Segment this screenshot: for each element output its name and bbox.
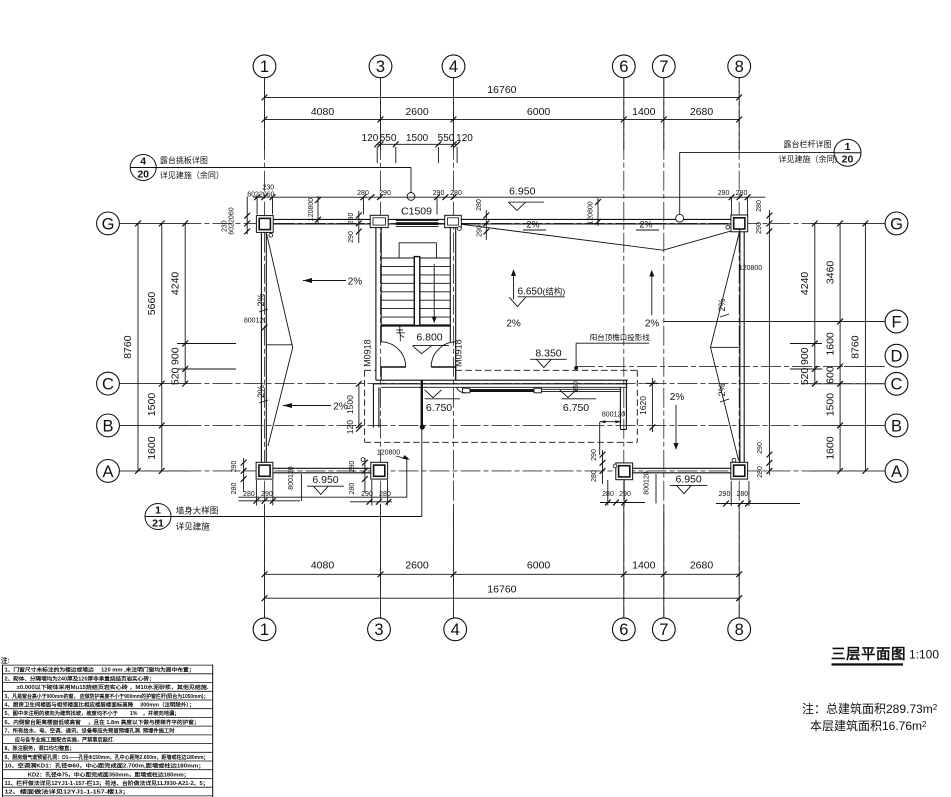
svg-text:2%: 2% [645,318,660,329]
svg-text:±0.000以下砌体采用Mu15烧结页岩实心砖 ，M10水泥: ±0.000以下砌体采用Mu15烧结页岩实心砖 ，M10水泥砂浆，其他见结施. [5,683,210,691]
svg-text:三层平面图: 三层平面图 [831,646,906,663]
svg-text:20: 20 [137,168,149,180]
svg-text:1500: 1500 [406,133,429,144]
svg-text:120800: 120800 [587,201,594,224]
grid line row A [120,470,886,472]
svg-text:800120: 800120 [244,318,267,325]
small circle marker 2 [726,225,730,229]
svg-text:900: 900 [799,347,811,365]
stair west wall [375,228,377,381]
svg-text:290: 290 [477,225,484,237]
svg-text:6.950: 6.950 [509,186,535,198]
svg-text:下: 下 [396,332,406,343]
svg-text:6000: 6000 [527,106,551,118]
svg-text:5、图中未注明的坡向为建筑找坡，坡度均不小于 1% ，并: 5、图中未注明的坡向为建筑找坡，坡度均不小于 1% ，并坡向地漏； [5,709,180,717]
svg-text:800120: 800120 [644,471,651,494]
svg-text:280: 280 [736,491,748,498]
svg-text:1:100: 1:100 [909,648,939,662]
grid extension left [120,383,191,385]
svg-text:1500: 1500 [825,393,837,417]
svg-text:290: 290 [348,231,355,243]
svg-text:B: B [891,417,902,435]
grid extension top [264,78,266,150]
svg-text:注:: 注: [1,656,10,665]
grid extension bottom [264,505,266,618]
svg-text:1600: 1600 [825,332,837,356]
svg-text:2%: 2% [256,293,266,306]
column A-1 [256,462,273,479]
svg-text:230: 230 [221,220,228,232]
grid bubble 6 top [612,55,635,78]
svg-text:16760: 16760 [487,583,516,595]
svg-text:4: 4 [140,156,146,168]
svg-text:4080: 4080 [311,559,335,571]
svg-text:2%: 2% [639,220,652,230]
svg-text:290: 290 [619,491,631,498]
grid bubble C left [97,372,120,395]
svg-text:1600: 1600 [825,436,837,460]
svg-text:290: 290 [719,491,731,498]
svg-text:290: 290 [591,449,598,461]
grid extension bottom [738,505,740,618]
svg-text:M0918: M0918 [362,339,372,367]
left dim 4240/900/520 [184,223,186,383]
svg-text:2600: 2600 [405,106,429,118]
grid extension top [453,78,455,150]
svg-text:KD2：孔径Φ75，中心距完成面350mm，距墙或柱边180: KD2：孔径Φ75，中心距完成面350mm，距墙或柱边180mm； [5,770,190,778]
svg-text:F: F [891,313,901,331]
small circle marker 5 [732,458,736,462]
svg-text:290: 290 [757,442,764,454]
wall row A right segment [633,467,732,469]
grid bubble 7 top [652,55,675,78]
svg-text:本层建筑面积16.76m2: 本层建筑面积16.76m2 [810,718,927,733]
grid bubble G right [885,212,908,235]
stair upper landing [399,243,436,258]
svg-text:6: 6 [619,621,628,639]
svg-text:4240: 4240 [170,272,182,296]
grid extension bottom [623,505,625,618]
svg-text:6.950: 6.950 [675,473,701,485]
wall pier left of window C1509 [370,215,388,227]
roof valley right [711,230,741,461]
svg-text:2、砌体、分隔墙均为240厚及120厚非承重烧结页岩实心砖；: 2、砌体、分隔墙均为240厚及120厚非承重烧结页岩实心砖； [5,674,155,682]
svg-text:注：总建筑面积289.73m2: 注：总建筑面积289.73m2 [802,701,938,716]
grid line column 7 [663,78,665,618]
grid bubble D right [885,344,908,367]
svg-text:3: 3 [374,621,383,639]
stair treads [381,257,450,259]
svg-text:280: 280 [348,213,355,225]
svg-text:280: 280 [757,466,764,478]
svg-text:520: 520 [799,367,811,385]
svg-text:阳台顶檐口投影线: 阳台顶檐口投影线 [590,332,650,342]
railing end arc [457,387,467,393]
grid extension left [120,222,191,224]
svg-text:G: G [890,215,903,233]
svg-text:1500: 1500 [146,393,158,417]
grid line column 6 [623,78,625,618]
svg-text:550: 550 [380,133,397,144]
callout 4/20 露台挑板详图 [130,155,156,181]
grid extension right [810,424,885,426]
grid extension bottom [380,505,382,618]
svg-text:4: 4 [449,58,458,76]
svg-text:2680: 2680 [690,106,714,118]
wall right exterior [739,232,741,463]
leader 阳台顶檐口投影线 [576,342,649,344]
svg-text:露台挑板详图: 露台挑板详图 [160,155,208,165]
stair west wall lower [380,367,382,380]
door M0918 left [381,342,406,367]
svg-text:1: 1 [155,505,161,517]
svg-text:8: 8 [735,58,744,76]
svg-text:2%: 2% [348,277,363,288]
slope arrow 2% col6 up [651,275,653,316]
svg-text:280: 280 [349,483,356,495]
svg-text:20: 20 [842,154,854,166]
callout 1/20 露台栏杆详图 [834,139,861,166]
svg-text:8.350: 8.350 [535,347,561,359]
grid line column 3 [380,78,382,618]
grid bubble 1 bottom [253,618,276,641]
svg-text:2%: 2% [506,318,521,329]
svg-text:6.750: 6.750 [563,402,589,414]
balcony east wall [619,387,621,429]
svg-text:2%: 2% [670,392,685,403]
grid bubble 7 bottom [652,618,675,641]
svg-text:1600: 1600 [146,436,158,460]
svg-text:2%: 2% [526,220,539,230]
svg-text:280: 280 [450,190,462,197]
grid line row D [575,365,885,367]
grid bubble 6 bottom [612,618,635,641]
svg-text:M0918: M0918 [454,339,464,367]
grid line row F [664,321,885,323]
grid bubble 8 top [728,55,751,78]
wall left exterior [260,232,262,463]
grid extension bottom [663,505,665,618]
svg-text:290: 290 [349,461,356,473]
grid extension right [810,383,885,385]
grid line column 4 [453,78,455,618]
svg-text:G: G [102,215,115,233]
svg-text:C1509: C1509 [401,205,432,217]
right dim 3460/1600/600/1500/1600 [839,223,841,471]
svg-text:8760: 8760 [850,335,862,359]
svg-text:4: 4 [451,621,460,639]
grid bubble C right [885,372,908,395]
svg-text:800120: 800120 [602,412,625,419]
svg-text:3: 3 [376,58,385,76]
wall row A left segment [273,467,372,469]
svg-text:5660: 5660 [146,292,158,316]
svg-text:1: 1 [260,58,269,76]
svg-text:1: 1 [260,621,269,639]
svg-text:详见建施（余同）: 详见建施（余同） [779,154,843,164]
svg-text:7: 7 [659,58,668,76]
svg-text:9、厨房烟气道预留孔洞：D1——孔径Φ150mm，孔中心距地: 9、厨房烟气道预留孔洞：D1——孔径Φ150mm，孔中心距地2.650m，距墙或… [5,753,209,761]
small circle marker 1 [269,233,273,237]
svg-text:6022060: 6022060 [247,191,274,198]
svg-text:120800: 120800 [739,265,762,272]
svg-text:550: 550 [438,133,455,144]
slope arrow 2% upper left interior [303,280,346,282]
stair east wall [449,228,451,342]
wall band row C [376,379,628,381]
svg-text:D: D [891,348,903,366]
stair down arrow [433,264,435,319]
svg-text:10、空调洞KD1：孔径Φ60，中心距完成面2.700m,距: 10、空调洞KD1：孔径Φ60，中心距完成面2.700m,距墙或柱边180mm； [5,762,205,770]
column A-3 [371,462,388,479]
svg-text:11、栏杆做法详见12YJ1-1-157-栏13；花池、台阶: 11、栏杆做法详见12YJ1-1-157-栏13；花池、台阶做法详见11J930… [5,779,209,787]
svg-text:6.650(结构): 6.650(结构) [518,287,566,298]
svg-text:280: 280 [756,200,763,212]
stair stringer [414,257,420,326]
column G-8 [731,215,748,232]
slope arrow 2% right interior down [675,405,677,445]
svg-text:120800: 120800 [377,449,400,456]
svg-text:800120: 800120 [288,466,295,489]
dim 1620 [651,378,653,432]
svg-text:8760: 8760 [122,335,134,359]
grid extension bottom [453,505,455,618]
small circle marker 6 [613,464,617,468]
svg-text:2%: 2% [256,385,266,398]
grid extension top [663,78,665,150]
svg-text:280: 280 [357,190,369,197]
svg-text:应与各专业施工图配合实施，严禁事后敲打.: 应与各专业施工图配合实施，严禁事后敲打. [5,735,116,743]
grid bubble 4 top [442,55,465,78]
svg-text:1: 1 [845,141,851,153]
grid extension top [738,78,740,150]
leader wall detail callout [421,381,423,429]
grid extension top [623,78,625,150]
svg-text:1620: 1620 [638,396,648,415]
svg-text:120: 120 [456,133,473,144]
svg-text:6: 6 [619,58,628,76]
bottom dim row 4080/2600/6000/1400/2680 [265,573,740,575]
svg-text:6.800: 6.800 [416,331,442,343]
svg-text:6、内侧窗台距离楼面低或高窗 ，且在 1.8m 高度以下做: 6、内侧窗台距离楼面低或高窗 ，且在 1.8m 高度以下做与楼梯齐平的护窗； [5,718,200,726]
svg-text:6022060: 6022060 [229,207,236,234]
svg-text:B: B [102,417,113,435]
grid bubble F right [885,310,908,333]
grid extension right [810,321,885,323]
right dim 8760 [864,223,866,471]
grid line column 8 [738,78,740,618]
svg-text:290: 290 [231,461,238,473]
roof valley left [267,234,293,447]
svg-text:1400: 1400 [632,559,656,571]
grid bubble 3 top [369,55,392,78]
grid bubble 8 bottom [728,618,751,641]
grid extension left [120,470,191,472]
grid extension top [380,78,382,150]
svg-text:3、凡是窗台高小于900mm的窗， 应做防护高度不小于90: 3、凡是窗台高小于900mm的窗， 应做防护高度不小于900mm的护窗栏杆(阳台… [5,692,209,700]
svg-text:120: 120 [362,133,379,144]
extension lines tier3 [376,147,378,163]
svg-text:2%: 2% [717,298,727,311]
svg-text:21: 21 [152,517,164,529]
svg-text:详见建施（余同）: 详见建施（余同） [160,170,224,180]
svg-text:290: 290 [756,222,763,234]
slope arrow 2% lower left interior [283,405,331,407]
grid line row G [120,222,886,224]
svg-text:8、胀注服务，洞口均匀整直；: 8、胀注服务，洞口均匀整直； [5,744,75,752]
svg-text:16760: 16760 [487,84,516,96]
balcony railing bar [463,388,470,393]
svg-text:2%: 2% [333,402,348,413]
column G-1 [256,216,273,233]
top dim 16760 [265,96,740,98]
grid bubble 4 bottom [444,618,467,641]
svg-text:A: A [102,463,113,481]
grid line row B [120,424,886,426]
column A-6 [616,463,633,480]
common top small-dim line [253,196,765,198]
stair tick below 下 [399,327,401,335]
svg-text:2680: 2680 [690,559,714,571]
svg-text:A: A [891,463,902,481]
svg-text:1400: 1400 [632,106,656,118]
svg-text:280: 280 [231,483,238,495]
balcony west wall [372,384,374,428]
wall row G [273,218,731,220]
left dim 8760 [137,223,139,471]
svg-text:280: 280 [476,199,483,211]
svg-text:290: 290 [718,190,730,197]
svg-text:2600: 2600 [405,559,429,571]
svg-text:600: 600 [825,366,837,384]
svg-text:520: 520 [170,367,182,385]
grid extension right D [844,365,885,367]
door M0918 right [431,342,456,367]
roof valley top [461,224,731,250]
svg-text:12、楼面做法详见12YJ1-1-157-楼13；: 12、楼面做法详见12YJ1-1-157-楼13； [5,788,130,796]
grid bubble A left [97,460,120,483]
grid line column 1 [264,78,266,618]
grid extension right [810,470,885,472]
right dim 4240/900/520 [814,223,816,383]
svg-text:露台栏杆详图: 露台栏杆详图 [784,139,832,149]
grid bubble 3 bottom [368,618,391,641]
small circle marker 4 [361,458,365,462]
svg-text:7、所有给水、电、空调、通讯、设备等应先预留预埋孔洞. 预埋: 7、所有给水、电、空调、通讯、设备等应先预留预埋孔洞. 预埋件施工时 [5,727,176,735]
grid line row C [120,383,886,385]
svg-text:3460: 3460 [825,261,837,285]
svg-text:2%: 2% [717,383,727,396]
grid bubble B left [97,414,120,437]
svg-text:4240: 4240 [799,272,811,296]
small circle marker 3 [457,227,461,231]
svg-text:150: 150 [573,381,580,393]
top dim row 4080/2600/6000/1400/2680 [265,118,740,120]
stair east wall lower [455,367,457,380]
left dim 5660/1500/1600 [161,223,163,471]
svg-text:120: 120 [345,420,355,434]
svg-text:900: 900 [170,347,182,365]
grid bubble B right [885,414,908,437]
svg-text:4、厨房卫生间楼面与相邻楼面比相应楼层楼面标高降 300m: 4、厨房卫生间楼面与相邻楼面比相应楼层楼面标高降 300mm（注明除外）； [5,701,195,709]
svg-text:墙身大样图: 墙身大样图 [176,506,219,516]
window C1509 [396,219,439,221]
svg-text:6.950: 6.950 [312,474,338,486]
dashed projection rect 阳台顶檐口 [365,369,376,371]
svg-text:4080: 4080 [311,106,335,118]
svg-text:7: 7 [659,621,668,639]
grid extension right [810,222,885,224]
svg-text:280: 280 [591,470,598,482]
wall pier right of window C1509 [445,215,462,227]
grid bubble G left [97,212,120,235]
grid extension left [120,424,191,426]
grid bubble 1 top [253,55,276,78]
svg-text:C: C [102,376,114,394]
dim 1500/120 left of balcony [358,384,360,429]
svg-text:8: 8 [735,621,744,639]
column A-8 [731,462,748,479]
stair bottom edge [381,324,450,326]
top dim row 120/550/1500/550/120 [377,143,457,145]
grid bubble A right [885,460,908,483]
svg-text:6000: 6000 [527,559,551,571]
svg-text:120800: 120800 [308,198,315,221]
svg-text:6.750: 6.750 [426,402,452,414]
svg-text:280: 280 [736,190,748,197]
bottom dim 16760 [265,597,740,599]
svg-text:C: C [891,376,903,394]
svg-text:详见建施: 详见建施 [176,522,211,532]
svg-text:1、门窗尺寸未标注的为楼边或墙边 120 mm ,未注明门: 1、门窗尺寸未标注的为楼边或墙边 120 mm ,未注明门窗均为居中布置； [5,666,195,674]
level 6.650 (structure) [513,274,515,300]
callout 1/21 墙身大样图 [145,504,171,530]
